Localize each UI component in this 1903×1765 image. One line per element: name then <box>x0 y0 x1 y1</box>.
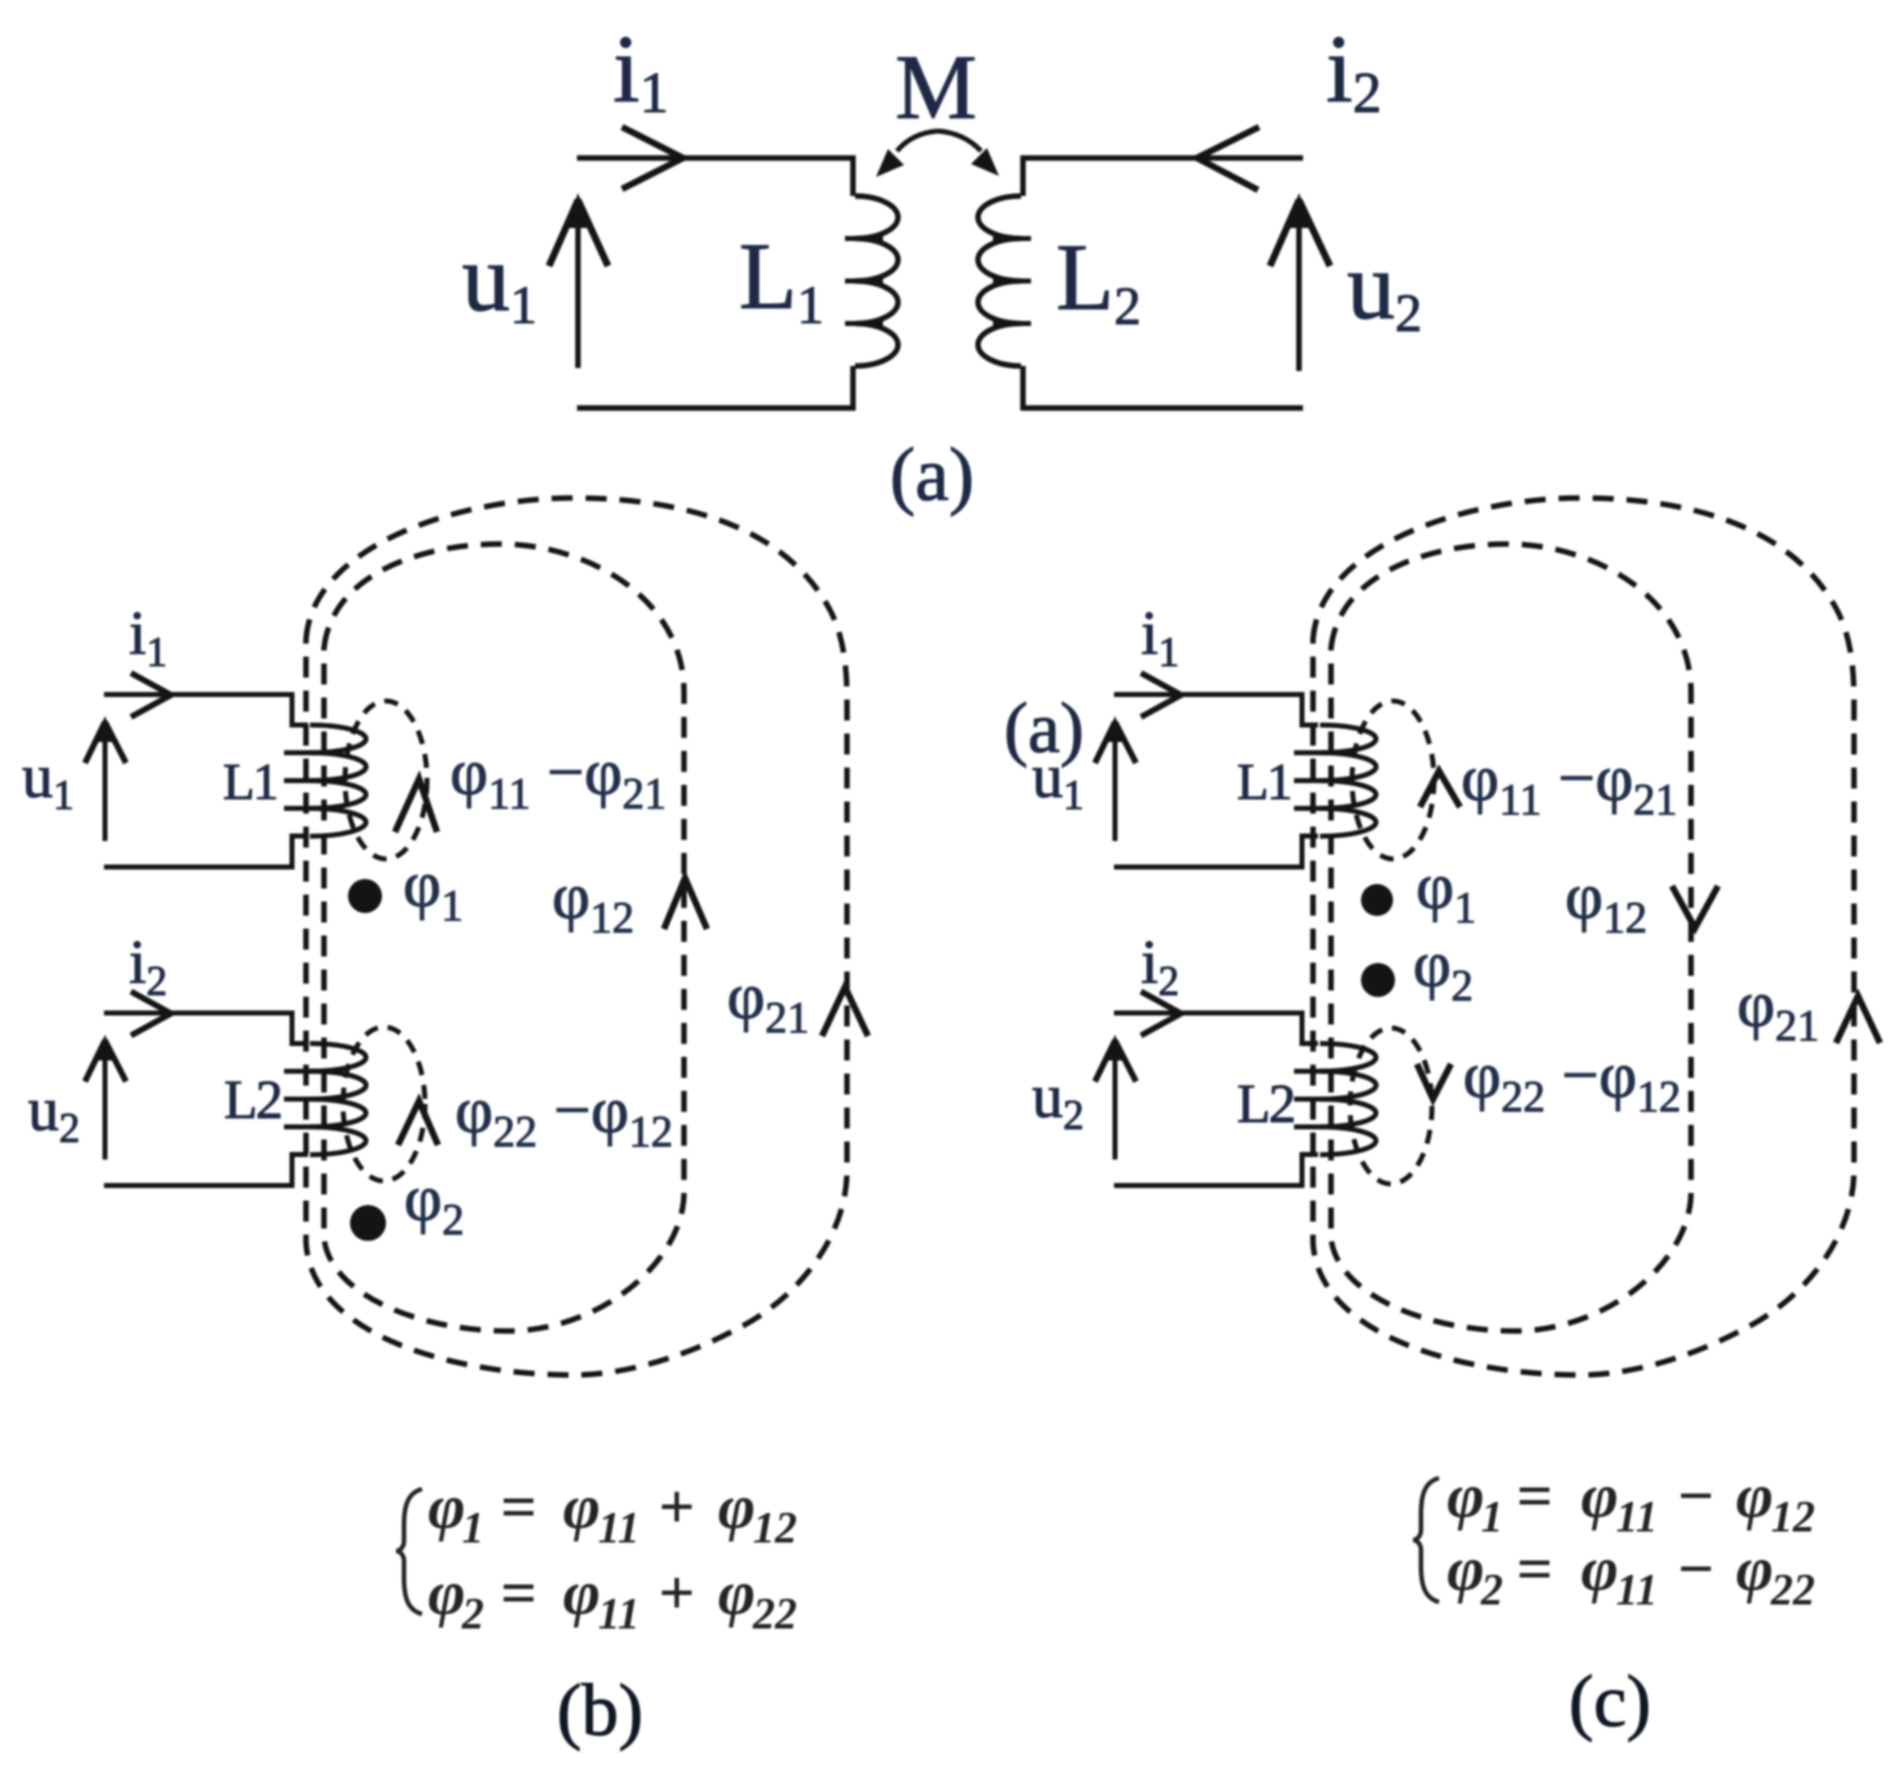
svg-text:11: 11 <box>1616 1565 1658 1614</box>
svg-text:L1: L1 <box>1237 754 1291 811</box>
svg-text:=: = <box>1516 1533 1552 1604</box>
svg-text:−: − <box>1676 1533 1715 1604</box>
svg-text:φ: φ <box>718 1557 755 1628</box>
svg-text:φ: φ <box>428 1471 465 1542</box>
svg-text:M: M <box>895 36 977 138</box>
svg-text:=: = <box>500 1557 536 1628</box>
svg-text:L2: L2 <box>1237 1073 1294 1134</box>
svg-text:φ: φ <box>563 1471 600 1542</box>
svg-text:(b): (b) <box>557 1670 643 1752</box>
svg-text:(a): (a) <box>1004 688 1084 768</box>
svg-text:12: 12 <box>1771 1492 1815 1541</box>
svg-text:φ: φ <box>718 1471 755 1542</box>
svg-text:22: 22 <box>752 1589 797 1638</box>
svg-text:φ: φ <box>1581 1533 1618 1604</box>
svg-text:φ: φ <box>428 1557 465 1628</box>
svg-text:2: 2 <box>461 1589 484 1638</box>
svg-text:11: 11 <box>598 1589 640 1638</box>
svg-text:=: = <box>1516 1460 1552 1531</box>
svg-text:L1: L1 <box>223 754 277 811</box>
svg-text:−: − <box>1676 1460 1715 1531</box>
svg-text:+: + <box>658 1471 694 1542</box>
svg-text:φ: φ <box>1581 1460 1618 1531</box>
svg-text:(c): (c) <box>1569 1661 1651 1743</box>
svg-text:(a): (a) <box>890 433 974 517</box>
svg-text:φ: φ <box>1736 1460 1773 1531</box>
svg-text:22: 22 <box>1770 1565 1815 1614</box>
svg-text:+: + <box>658 1557 694 1628</box>
svg-text:12: 12 <box>753 1503 797 1552</box>
svg-text:1: 1 <box>462 1503 484 1552</box>
svg-text:φ: φ <box>563 1557 600 1628</box>
svg-text:2: 2 <box>1480 1565 1503 1614</box>
svg-text:L2: L2 <box>224 1069 281 1130</box>
svg-text:φ: φ <box>1736 1533 1773 1604</box>
svg-text:11: 11 <box>598 1503 640 1552</box>
svg-text:φ: φ <box>1447 1460 1484 1531</box>
svg-text:=: = <box>500 1471 536 1542</box>
svg-text:11: 11 <box>1616 1492 1658 1541</box>
svg-text:φ: φ <box>1447 1533 1484 1604</box>
